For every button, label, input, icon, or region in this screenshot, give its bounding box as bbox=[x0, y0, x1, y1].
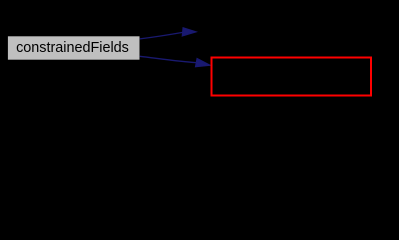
node red (truncated-graph box, empty/black fill) bbox=[212, 58, 372, 96]
edge arrow to top-right node bbox=[140, 28, 197, 39]
edge arrow to red node bbox=[140, 56, 211, 67]
node constrainedFields (grey root box) bbox=[8, 36, 140, 59]
svg-text:constrainedFields: constrainedFields bbox=[16, 40, 129, 56]
node top-right (invisible black-bordered box) bbox=[198, 13, 358, 51]
